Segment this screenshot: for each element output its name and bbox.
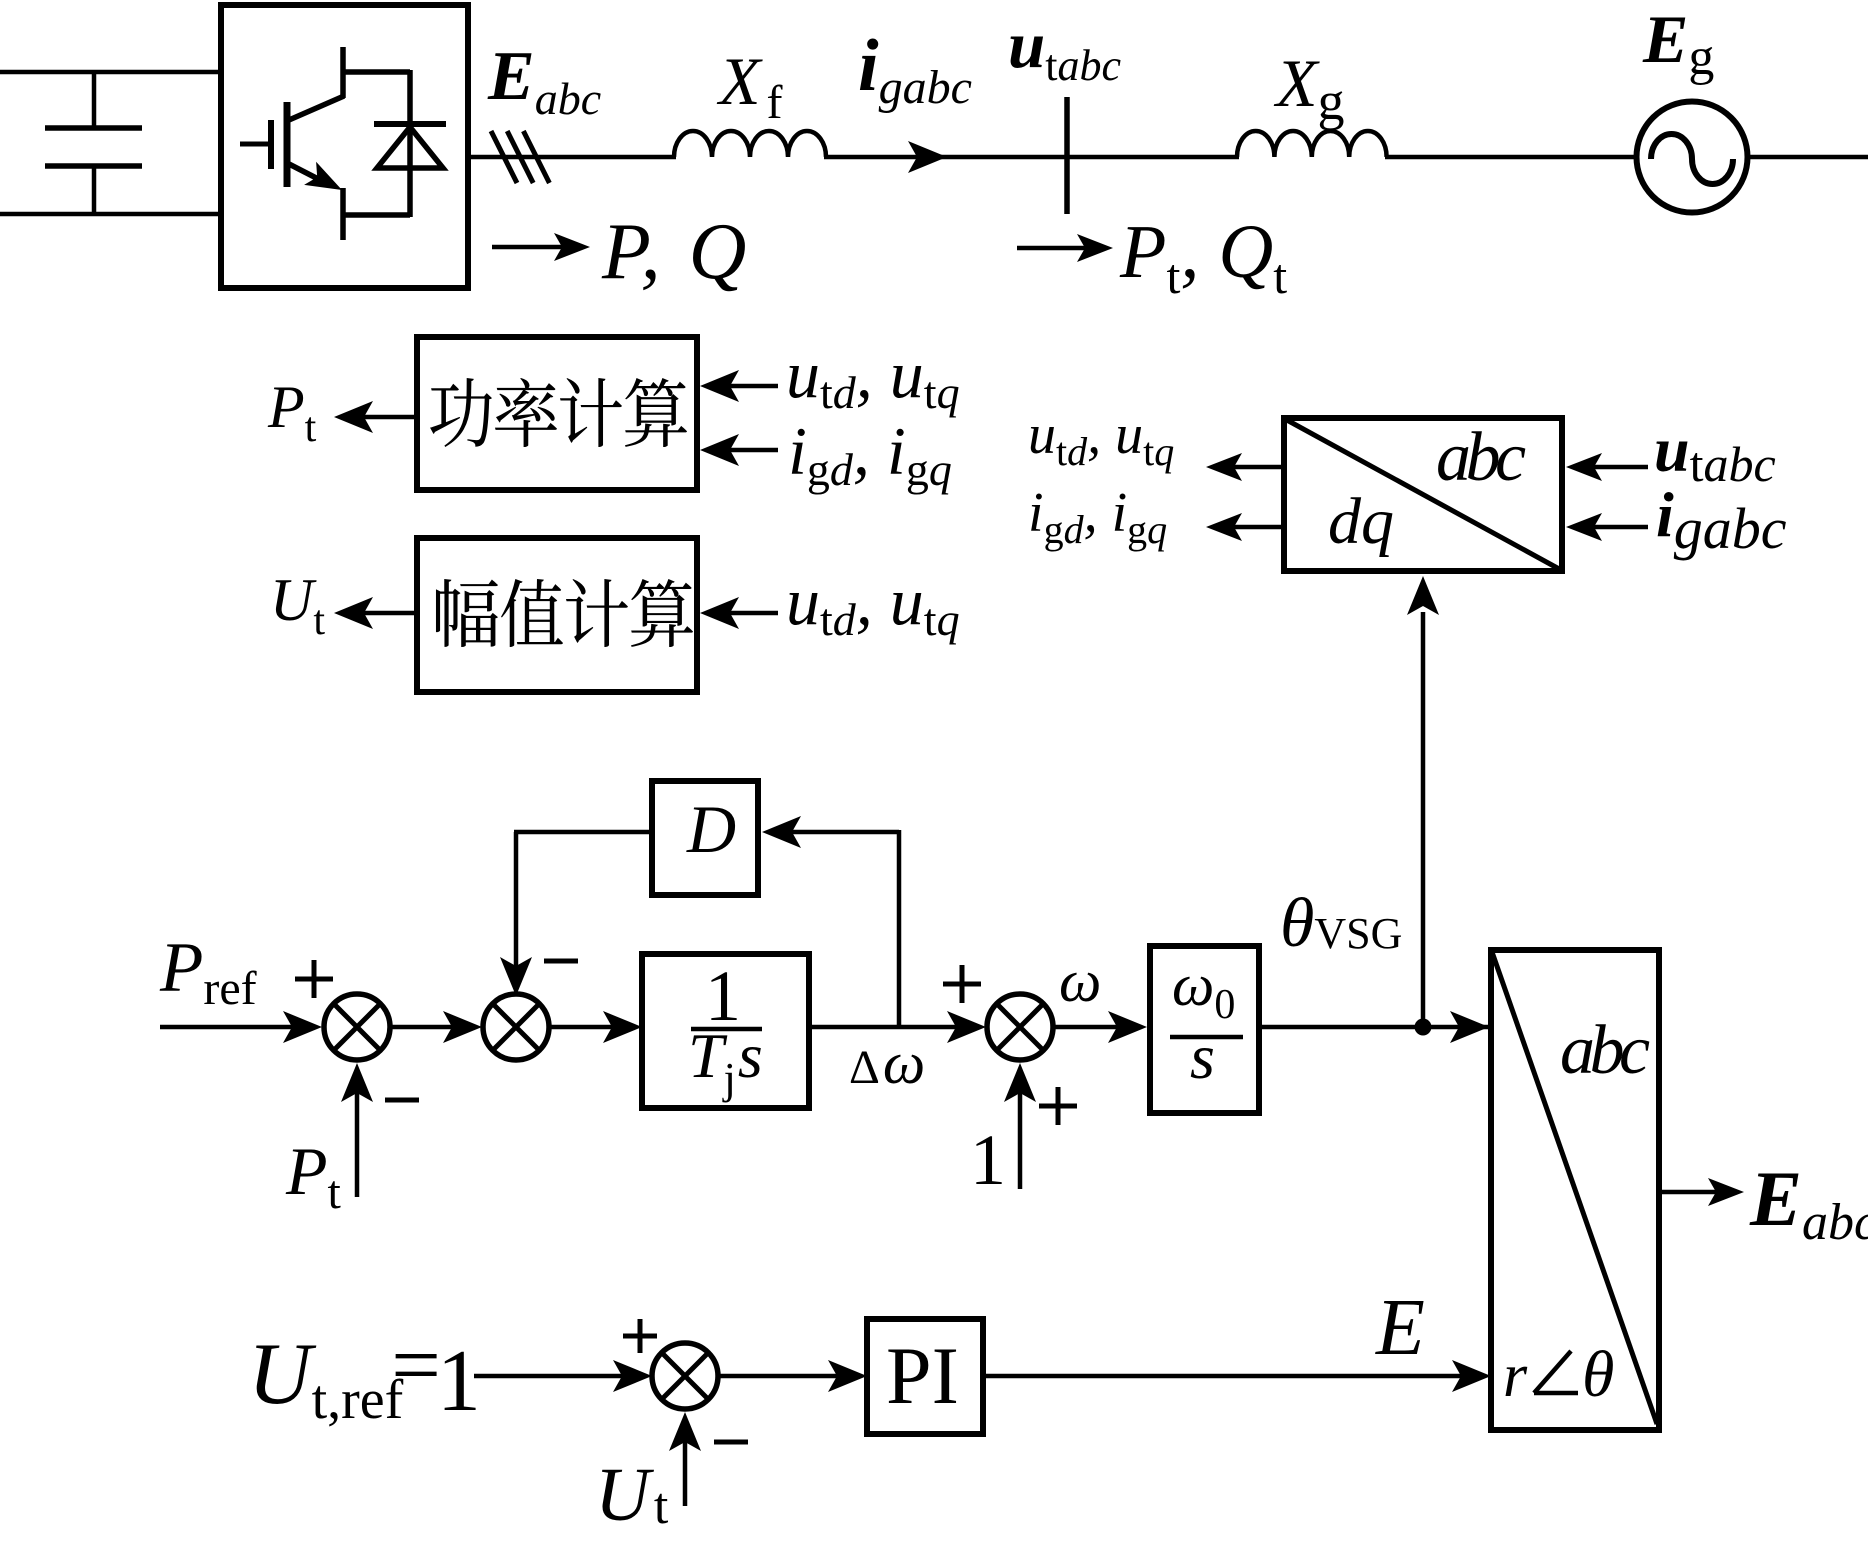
block 1/(T_j s) <box>642 954 809 1108</box>
wire U_t input <box>683 1436 688 1506</box>
sign + at sum3 <box>943 965 981 1003</box>
sign + at sum4 <box>623 1319 657 1353</box>
summing junction S2 <box>483 994 549 1060</box>
block PI <box>867 1319 983 1434</box>
arrowhead into inertia block <box>603 1011 642 1043</box>
arrowhead into sum2 <box>443 1011 482 1043</box>
arrowhead i_gabc <box>908 141 947 173</box>
wire sum2 to inertia block <box>549 1025 620 1030</box>
wire sum3 to integrator <box>1053 1025 1125 1030</box>
capacitor C (dc link) <box>45 70 142 216</box>
arrowhead into abc block <box>1450 1011 1489 1043</box>
text 幅值计算 <box>436 579 693 647</box>
arrow output E_abc <box>1659 1178 1744 1206</box>
text 1/(T_j s) <box>688 956 763 1103</box>
wire dc bottom rail <box>0 212 223 217</box>
sign - at sum1 <box>385 1098 419 1103</box>
arrowhead E into abc block <box>1452 1360 1491 1392</box>
arrowhead into sum3 <box>947 1011 986 1043</box>
wire P_ref in <box>160 1025 300 1030</box>
block abc->dq transform <box>1284 418 1562 571</box>
wire U_ref in <box>474 1374 630 1379</box>
wire theta_VSG <box>1259 1025 1489 1030</box>
arrow out u_td,u_tq <box>1206 453 1284 481</box>
arrow in u_tabc <box>1566 453 1648 481</box>
arrow P_t,Q_t <box>1017 234 1113 262</box>
node: bus bar u_tabc <box>1064 97 1070 214</box>
svg-text:PI: PI <box>886 1330 959 1421</box>
block abc / r-angle-theta <box>1491 950 1659 1430</box>
arrow in i_gabc <box>1566 513 1648 541</box>
wire from source right <box>1747 155 1868 160</box>
inductor X_f <box>674 131 826 157</box>
block amplitude-calc 幅值计算 <box>417 538 697 692</box>
wire to grid bus <box>824 155 1239 160</box>
wire theta to dq block <box>1421 612 1426 1027</box>
wire inverter output <box>468 155 676 160</box>
text 功率计算 <box>430 378 687 447</box>
inverter block (VSC) <box>221 5 468 288</box>
arrow output U_t <box>334 597 417 629</box>
arrowhead U_t into sum4 <box>669 1412 701 1451</box>
wire P_t input <box>355 1087 360 1197</box>
svg-text:1: 1 <box>970 1120 1006 1200</box>
wire D feedback down <box>514 832 654 974</box>
arrowhead P_t into sum1 <box>341 1063 373 1102</box>
svg-text:ω: ω <box>1059 948 1101 1014</box>
arrow input u_td,u_tq <box>700 370 778 402</box>
svg-text:P, Q: P, Q <box>601 208 746 296</box>
svg-text:dq: dq <box>1328 485 1394 558</box>
arrow input u_td,u_tq (amp) <box>700 597 778 629</box>
arrow P,Q <box>492 233 590 261</box>
wire sum1 to sum2 <box>390 1025 460 1030</box>
svg-text:abc: abc <box>1560 1012 1650 1089</box>
block D (damping) <box>652 781 758 895</box>
arrowhead into sum4 <box>613 1360 652 1392</box>
arrow out i_gd,i_gq <box>1206 513 1284 541</box>
sign - at sum4 <box>714 1440 748 1445</box>
text omega0/s <box>1170 952 1243 1092</box>
wire 1 input <box>1018 1087 1023 1189</box>
sign + at sum3 bottom <box>1039 1087 1077 1125</box>
transistor Q1 (IGBT) <box>240 47 410 240</box>
arrowhead into PI <box>828 1360 867 1392</box>
label r angle theta <box>1503 1338 1614 1411</box>
wire D input from takeoff <box>786 830 899 1027</box>
wire sum4 to PI <box>718 1374 845 1379</box>
svg-text:D: D <box>686 791 736 867</box>
sign + at sum1 <box>295 960 333 998</box>
wire inertia out <box>809 1025 964 1030</box>
block power-calc 功率计算 <box>417 337 697 490</box>
arrowhead D into sum2 <box>500 957 532 996</box>
summing junction S1 <box>324 994 390 1060</box>
summing junction S3 <box>987 994 1053 1060</box>
arrow output P_t <box>334 401 417 433</box>
wire PI out E <box>983 1374 1470 1379</box>
block omega0/s integrator <box>1150 946 1259 1113</box>
diode D1 (antiparallel) <box>374 70 446 217</box>
arrowhead into integrator <box>1108 1011 1147 1043</box>
svg-text:E: E <box>1375 1284 1425 1372</box>
svg-text:Pt, Qt: Pt, Qt <box>1119 210 1287 304</box>
wire dc top rail <box>0 70 223 75</box>
arrow input i_gd,i_gq <box>700 434 778 466</box>
svg-text:s: s <box>1190 1021 1215 1092</box>
arrowhead up into dq block <box>1407 576 1439 615</box>
arrowhead into sum1 <box>283 1011 322 1043</box>
summing junction S4 <box>652 1343 718 1409</box>
arrowhead into D <box>762 816 801 848</box>
wire to grid source <box>1385 155 1637 160</box>
ac source E_g <box>1637 102 1748 213</box>
svg-text:r: r <box>1503 1342 1528 1410</box>
inductor X_g <box>1237 131 1387 157</box>
sign - at sum2 <box>544 959 578 964</box>
arrowhead 1 into sum3 <box>1004 1063 1036 1102</box>
svg-text:abc: abc <box>1436 419 1526 496</box>
three-phase slash marks <box>491 131 549 183</box>
svg-text:θ: θ <box>1582 1338 1614 1411</box>
node junction dot <box>1415 1019 1432 1036</box>
